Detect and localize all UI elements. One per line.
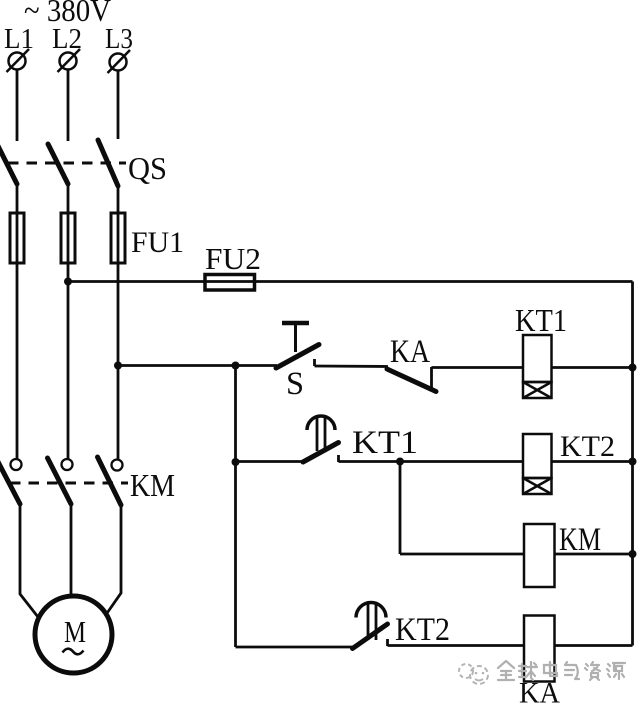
switch QS pole 2 blade (48, 144, 68, 184)
wire row2 left (236, 460, 304, 463)
switch QS pole 1 blade (0, 144, 17, 184)
fuse FU1 pole 1 (10, 213, 24, 263)
contact KT2 delay symbol (356, 603, 386, 641)
wire KT1 coil to right rail (552, 366, 633, 369)
wire S to KA (315, 365, 389, 368)
wire KA coil to right rail (555, 644, 633, 647)
node left rail row2 (232, 458, 240, 466)
svg-text:KA: KA (390, 334, 430, 370)
contact KA blade (387, 369, 436, 392)
contactor KM pole 2 fixed contact (62, 459, 73, 470)
contact KA label (390, 334, 430, 370)
wire row2 right (339, 460, 524, 463)
wire L1 mid (16, 184, 19, 459)
char zi (585, 662, 600, 680)
char quan (498, 661, 514, 680)
wire row4 right (388, 644, 525, 647)
node junction L2 / control feed (64, 278, 72, 286)
switch S label (286, 366, 304, 402)
wire motor lead 1 (20, 504, 38, 617)
switch S right contact tick (313, 359, 316, 366)
coil KM label (559, 522, 601, 558)
node right rail row3 (629, 550, 637, 558)
svg-text:KT1: KT1 (515, 302, 567, 338)
fuse FU2 label (205, 241, 261, 276)
terminal L1 (7, 49, 30, 72)
contact KA right contact tick (430, 367, 433, 390)
coil KT1 (523, 335, 552, 398)
switch QS mechanical link (8, 162, 126, 165)
svg-text:KT2: KT2 (560, 430, 615, 463)
switch S blade (276, 345, 319, 369)
switch QS pole 3 blade (98, 140, 118, 186)
wire KT2 coil to right rail (552, 460, 633, 463)
svg-text:S: S (286, 366, 304, 402)
contact KT2 blade (353, 624, 388, 649)
svg-text:M: M (64, 614, 86, 649)
contactor KM pole 2 blade (48, 458, 72, 504)
wire branch down to KM row (399, 462, 402, 555)
contact KT1 blade (303, 443, 339, 463)
fuse FU2 (205, 275, 255, 291)
coil KT2 (523, 434, 552, 494)
wire KA to KT1 coil (432, 366, 524, 369)
svg-text:KA: KA (519, 677, 560, 703)
node left rail top (232, 362, 240, 370)
node right rail row2 (629, 458, 637, 466)
svg-text:KT1: KT1 (352, 425, 418, 461)
contactor KM label (130, 467, 175, 503)
wire L2 upper (67, 70, 70, 142)
contact KT2 right contact tick (386, 639, 389, 646)
wire KM coil to right rail (555, 553, 633, 556)
wire control top rail (68, 280, 633, 283)
contact KT2 label (395, 612, 450, 648)
contact KT1 label (352, 425, 418, 461)
motor M (35, 596, 112, 673)
svg-text:QS: QS (128, 150, 167, 186)
fuse FU1 label (131, 226, 184, 259)
coil KA (524, 616, 555, 682)
watermark logo (459, 664, 488, 684)
node right rail row1 (629, 364, 637, 372)
wire L3 upper (117, 71, 120, 140)
node junction L3 / S row (114, 362, 122, 370)
label ~380V (24, 0, 111, 28)
switch S actuator (282, 323, 309, 352)
wire L3 mid (117, 186, 120, 459)
char dian (544, 662, 557, 676)
wire KM row left (400, 553, 524, 556)
wire S row left (118, 364, 277, 367)
char qiu (519, 662, 537, 680)
wire L1 upper (16, 70, 19, 142)
terminal L1 label (4, 24, 34, 55)
terminal L2 (58, 49, 81, 72)
svg-text:FU1: FU1 (131, 226, 184, 259)
contactor KM pole 1 blade (0, 458, 20, 504)
svg-text:KT2: KT2 (395, 612, 450, 648)
contact KT1 delay symbol (307, 416, 335, 451)
contact KT1 right contact tick (337, 455, 340, 462)
contactor KM mechanical link (10, 482, 128, 485)
char yuan (607, 663, 625, 679)
terminal L2 label (52, 24, 82, 55)
fuse FU1 pole 3 (111, 213, 125, 263)
contactor KM pole 3 fixed contact (112, 460, 123, 471)
wire row4 left (236, 646, 354, 649)
coil KA label (519, 677, 560, 703)
switch QS label (128, 150, 167, 186)
svg-text:FU2: FU2 (205, 241, 261, 276)
svg-text:KM: KM (130, 467, 175, 503)
watermark text (498, 661, 625, 680)
coil KT2 label (560, 430, 615, 463)
char qi (565, 662, 579, 679)
contactor KM pole 1 fixed contact (11, 459, 22, 470)
wire L2 mid (67, 184, 70, 459)
terminal L3 (108, 50, 131, 73)
svg-text:L1: L1 (4, 24, 34, 55)
coil KM (524, 524, 555, 587)
wire left rail (234, 366, 237, 648)
contactor KM pole 3 blade (98, 457, 122, 505)
coil KT1 label (515, 302, 567, 338)
wire motor lead 3 (105, 505, 121, 616)
terminal L3 label (105, 24, 133, 55)
wire right rail (631, 282, 634, 646)
node row2 branch (396, 458, 404, 466)
wire motor lead 2 (70, 504, 73, 597)
fuse FU1 pole 2 (61, 213, 75, 263)
